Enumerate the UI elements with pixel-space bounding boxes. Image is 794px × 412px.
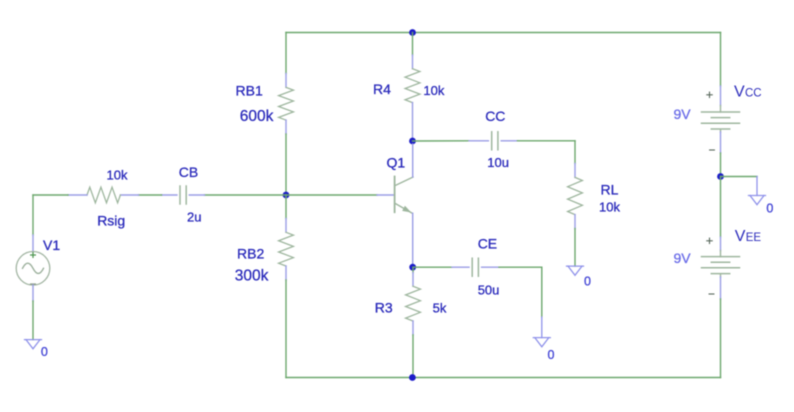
transistor Q1 base bar	[394, 177, 396, 213]
source V1 minus	[31, 283, 36, 285]
wire emitter to CE	[413, 266, 452, 268]
wire collector to CC	[413, 140, 470, 142]
svg-text:0: 0	[584, 275, 591, 289]
pin CE right lead	[482, 266, 499, 268]
pin V1 top lead	[32, 235, 34, 252]
svg-text:VCC: VCC	[734, 84, 762, 101]
pin R3 top lead	[412, 273, 414, 287]
svg-text:0: 0	[766, 202, 773, 216]
pin Q1 collector lead	[412, 144, 414, 177]
label CE	[478, 236, 497, 252]
transistor Q1 emitter arrow	[403, 206, 411, 212]
svg-text:10k: 10k	[599, 199, 620, 214]
wire V1 to ground	[32, 301, 34, 340]
label CB	[179, 164, 198, 180]
svg-text:CB: CB	[179, 164, 198, 180]
wire RB1 to base node	[285, 134, 287, 195]
node bottom rail junction	[409, 374, 416, 381]
label VCC minus	[710, 149, 715, 151]
wire right branch upper (top rail to VCC+)	[720, 33, 722, 87]
label VEE plus	[707, 238, 712, 243]
source V1 sine	[23, 263, 44, 273]
svg-text:RL: RL	[601, 182, 619, 198]
source V1 plus	[31, 253, 36, 258]
wire R4 branch upper	[412, 33, 414, 56]
label VEE 9V	[674, 250, 692, 266]
capacitor CE	[472, 258, 478, 276]
label R3 value 5k	[433, 300, 447, 315]
svg-text:R3: R3	[375, 299, 393, 315]
label R4	[373, 81, 391, 97]
pin Rsig left lead	[68, 194, 87, 196]
svg-text:10k: 10k	[423, 83, 444, 98]
pin R4 bottom lead	[412, 103, 414, 141]
svg-text:10u: 10u	[487, 155, 509, 170]
pin CB right lead	[189, 194, 204, 196]
label Q1	[387, 154, 406, 170]
pin Rsig right lead	[120, 194, 138, 196]
resistor RB2	[279, 232, 294, 266]
label R4 value 10k	[423, 83, 444, 98]
transistor Q1 emitter stroke	[395, 204, 412, 214]
pin RB1 bottom lead	[285, 120, 287, 134]
svg-text:5k: 5k	[433, 300, 447, 315]
wire bottom rail	[286, 377, 721, 379]
label RL	[601, 182, 619, 198]
svg-text:Q1: Q1	[387, 154, 406, 170]
transistor Q1 collector stroke	[395, 177, 413, 186]
svg-text:RB2: RB2	[237, 246, 264, 262]
pin CC left lead	[469, 140, 488, 142]
label RL value 10k	[599, 199, 620, 214]
label RB1 value 600k	[240, 108, 274, 125]
svg-text:9V: 9V	[674, 250, 692, 266]
pin CB left lead	[162, 194, 177, 196]
wire RB2 to bottom rail	[285, 280, 287, 378]
wire top rail	[286, 32, 721, 34]
svg-text:CE: CE	[478, 236, 497, 252]
resistor RB1	[279, 87, 294, 120]
svg-text:V1: V1	[43, 237, 60, 253]
svg-text:10k: 10k	[107, 168, 128, 183]
pin R4 top lead	[412, 55, 414, 69]
node collector junction	[409, 138, 416, 145]
resistor RL	[568, 177, 583, 214]
ground mid supply	[749, 196, 766, 205]
label CB value 2u	[187, 209, 201, 224]
wire VCC minus stub	[720, 130, 722, 133]
svg-text:300k: 300k	[235, 267, 269, 284]
label Rsig	[97, 213, 125, 229]
pin RL top lead	[574, 164, 576, 178]
label RB2	[237, 246, 264, 262]
pin VEE plus lead	[720, 237, 722, 251]
node mid supply junction	[717, 173, 724, 180]
pin VCC minus lead	[720, 132, 722, 153]
svg-text:50u: 50u	[478, 282, 500, 297]
svg-text:VEE: VEE	[735, 228, 762, 245]
node top rail R4 junction	[409, 29, 416, 36]
svg-text:CC: CC	[485, 108, 505, 124]
node emitter junction	[409, 264, 416, 271]
wire VCC to mid node	[720, 153, 722, 177]
capacitor CB	[180, 186, 186, 204]
pin RL bottom lead	[574, 215, 576, 229]
ground CE	[533, 338, 550, 347]
wire VCC plus stub	[720, 106, 722, 113]
label V1	[43, 237, 60, 253]
pin Q1 emitter lead	[412, 213, 414, 263]
wire VEE plus stub	[720, 251, 722, 257]
wire base node to Q1	[286, 194, 377, 196]
label mid ground 0	[766, 202, 773, 216]
label CC	[485, 108, 505, 124]
label CC value 10u	[487, 155, 509, 170]
capacitor CC	[492, 132, 498, 150]
wire RL branch upper	[574, 141, 576, 164]
wire mid node to ground stub	[721, 176, 758, 178]
pin CE left lead	[452, 266, 469, 268]
wire RB1 branch upper	[285, 33, 287, 74]
label RB2 value 300k	[235, 267, 269, 284]
label CE ground 0	[548, 348, 555, 362]
node base junction	[283, 192, 290, 199]
pin RB2 top lead	[285, 219, 287, 233]
battery VEE	[702, 257, 740, 274]
label R3	[375, 299, 393, 315]
pin mid ground lead	[756, 177, 758, 196]
pin CE ground lead	[541, 317, 543, 338]
resistor Rsig	[87, 187, 120, 203]
label VCC 9V	[674, 106, 692, 122]
wire CB to Rsig	[139, 194, 162, 196]
battery VCC	[702, 112, 740, 129]
svg-text:Rsig: Rsig	[97, 213, 125, 229]
wire emitter node down	[412, 267, 414, 272]
pin RB1 top lead	[285, 74, 287, 88]
pin V1 bottom lead	[32, 285, 34, 301]
source V1 circle	[16, 251, 50, 285]
ground RL	[567, 266, 584, 275]
svg-text:R4: R4	[373, 81, 391, 97]
svg-text:2u: 2u	[187, 209, 201, 224]
svg-text:0: 0	[548, 348, 555, 362]
wire V1 branch upper	[32, 195, 34, 235]
svg-text:9V: 9V	[674, 106, 692, 122]
label VCC	[734, 84, 762, 101]
svg-text:600k: 600k	[240, 108, 274, 125]
svg-text:0: 0	[41, 345, 48, 359]
resistor R4	[405, 69, 420, 103]
wire VEE minus stub	[720, 274, 722, 277]
label V1 ground 0	[41, 345, 48, 359]
wire base node to CB	[205, 194, 287, 196]
wire base node down	[285, 195, 287, 219]
label RL ground 0	[584, 275, 591, 289]
pin RB2 bottom lead	[285, 266, 287, 280]
resistor R3	[406, 286, 421, 321]
pin R3 bottom lead	[412, 321, 414, 335]
wire CC to RL corner	[518, 140, 576, 142]
label RB1	[236, 83, 263, 99]
wire R3 to bottom rail	[412, 335, 414, 378]
wire mid node to VEE	[720, 177, 722, 238]
pin Q1 base lead	[377, 194, 395, 196]
ground V1	[25, 340, 42, 349]
wire CE to corner	[499, 266, 542, 268]
wire CE ground branch	[541, 267, 543, 317]
wire VEE to bottom rail	[720, 299, 722, 378]
pin CC right lead	[501, 140, 517, 142]
svg-text:RB1: RB1	[236, 83, 263, 99]
label VEE	[735, 228, 762, 245]
label VEE minus	[709, 293, 714, 295]
pin VCC plus lead	[720, 86, 722, 106]
pin VEE minus lead	[720, 277, 722, 299]
label Rsig value 10k	[107, 168, 128, 183]
label VCC plus	[707, 92, 712, 97]
wire Rsig to V1 corner	[33, 194, 68, 196]
label CE value 50u	[478, 282, 500, 297]
wire RL to ground	[574, 229, 576, 267]
